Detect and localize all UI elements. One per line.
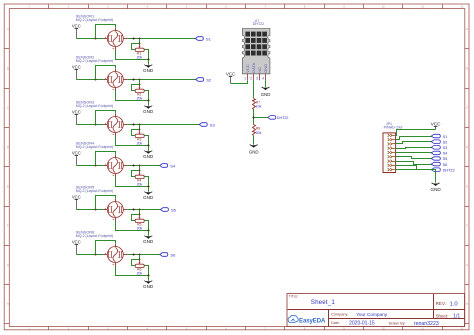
wire heater loop (sensor 1) xyxy=(96,25,116,39)
wire JP1 pin 4 to S3 flag xyxy=(396,148,432,149)
ground (sensor 4) xyxy=(143,187,154,201)
wire sensor 4 bottom pin to ground rail xyxy=(116,177,149,187)
wire heater loop (sensor 6) xyxy=(96,241,116,255)
svg-text:2: 2 xyxy=(250,76,252,80)
junction (sensor 3 divider tap) xyxy=(139,124,141,126)
wire sensor 1 bottom pin to ground rail xyxy=(116,50,149,60)
wire divider tap down (sensor 2) xyxy=(139,80,141,85)
wire divider tap down (sensor 6) xyxy=(139,255,141,260)
svg-text:R3: R3 xyxy=(137,138,142,142)
svg-text:R6: R6 xyxy=(137,268,142,272)
junction (wiper tie, sensor 2) xyxy=(139,84,141,86)
svg-text:Sheet:: Sheet: xyxy=(436,313,449,318)
svg-text:SENSOR5: SENSOR5 xyxy=(76,185,94,189)
wire JP1 pin 1 to VCC xyxy=(396,130,436,136)
wire R5 to ground rail xyxy=(145,221,149,231)
svg-text:MQ-2 (Layout-Footprint): MQ-2 (Layout-Footprint) xyxy=(76,234,114,238)
svg-text:SENSOR6: SENSOR6 xyxy=(76,230,94,234)
ground (sensor 3) xyxy=(143,146,154,160)
potentiometer R5 20k xyxy=(135,215,144,231)
svg-text:10k: 10k xyxy=(256,105,262,109)
ground (R8) xyxy=(249,145,259,155)
net flag S5 xyxy=(160,208,176,213)
svg-text:SENSOR1: SENSOR1 xyxy=(76,14,94,18)
junction (sensor 1 ground) xyxy=(147,58,149,60)
junction (sensor 6 ground) xyxy=(147,274,149,276)
svg-text:S2: S2 xyxy=(206,78,212,83)
resistor R8 20k xyxy=(253,125,262,136)
svg-text:S6: S6 xyxy=(443,163,448,167)
potentiometer R4 20k xyxy=(135,171,144,187)
svg-text:MQ-2 (Layout-Footprint): MQ-2 (Layout-Footprint) xyxy=(76,104,114,108)
svg-text:1.0: 1.0 xyxy=(450,301,458,307)
wire sensor 6 bottom pin to ground rail xyxy=(116,266,149,276)
wire DHT22 pin 4 to ground xyxy=(265,80,267,87)
svg-text:GND: GND xyxy=(263,64,268,73)
junction (sensor 3 ground) xyxy=(147,144,149,146)
svg-text:S5: S5 xyxy=(443,157,448,161)
svg-text:S6: S6 xyxy=(170,253,176,258)
junction (sensor 5 divider tap) xyxy=(139,209,141,211)
junction (sensor 6 output pin) xyxy=(133,254,135,256)
wire wiper loop (sensor 2) xyxy=(132,85,140,91)
junction (sensor 6 divider tap) xyxy=(139,254,141,256)
wire wiper loop (sensor 1) xyxy=(132,44,140,50)
svg-text:VCC: VCC xyxy=(72,24,81,29)
wire heater loop (sensor 4) xyxy=(96,152,116,166)
svg-text:S3: S3 xyxy=(210,123,216,128)
svg-text:S2: S2 xyxy=(443,140,448,144)
svg-text:S4: S4 xyxy=(443,152,448,156)
wire JP1 pin 5 to S4 flag xyxy=(396,152,432,154)
junction (sensor 5 heater tap) xyxy=(95,209,97,211)
net flag DHT22 (middle) xyxy=(268,116,289,120)
svg-text:VCC: VCC xyxy=(72,240,81,245)
junction (sensor 3 heater tap) xyxy=(95,124,97,126)
svg-text:H: H xyxy=(466,303,468,306)
junction (sensor 2 output pin) xyxy=(133,79,135,81)
svg-text:1/1: 1/1 xyxy=(453,314,460,320)
VCC power flag (sensor 6) xyxy=(72,240,81,255)
VCC power flag (sensor 1) xyxy=(72,24,81,39)
junction (sensor 4 divider tap) xyxy=(139,165,141,167)
svg-text:2020-01-15: 2020-01-15 xyxy=(349,320,375,326)
svg-text:Drawn By:: Drawn By: xyxy=(389,322,406,326)
wire sensor 2 output to S2 flag xyxy=(127,79,195,81)
VCC power flag (sensor 5) xyxy=(72,195,81,210)
wire sensor 4 output to S4 flag xyxy=(127,165,160,167)
ground (DHT22 pin 4) xyxy=(261,87,271,97)
junction (sensor 2 divider tap) xyxy=(139,79,141,81)
wire JP1 pin 7 to S6 flag xyxy=(396,162,432,165)
svg-text:R1: R1 xyxy=(137,52,142,56)
potentiometer R3 20k xyxy=(135,130,144,146)
wire R6 to ground rail xyxy=(145,266,149,276)
IC U? DHT22 xyxy=(242,19,270,80)
svg-text:S1: S1 xyxy=(206,37,212,42)
wire VCC to sensor 5 left pin xyxy=(76,209,103,211)
svg-text:G: G xyxy=(7,264,9,267)
svg-text:SENSOR2: SENSOR2 xyxy=(76,55,94,59)
junction (sensor 5 ground) xyxy=(147,229,149,231)
wire divider tap down (sensor 5) xyxy=(139,210,141,215)
junction (sensor 2 heater tap) xyxy=(95,79,97,81)
svg-text:GND: GND xyxy=(261,92,271,97)
svg-text:VCC: VCC xyxy=(72,65,81,70)
wire wiper loop (sensor 5) xyxy=(132,215,140,221)
junction (wiper tie, sensor 1) xyxy=(139,43,141,45)
wire heater loop (sensor 3) xyxy=(96,111,116,125)
VCC power flag (JP1) xyxy=(431,122,441,130)
wire JP1 pin 3 to S2 flag xyxy=(396,142,432,144)
junction (sensor 1 output pin) xyxy=(133,38,135,40)
wire DHT22 data to R7 xyxy=(253,80,255,98)
svg-text:DATA: DATA xyxy=(251,62,256,72)
wire JP1 pin 9 to ground xyxy=(396,170,436,183)
net flag S4 xyxy=(160,164,176,169)
junction (wiper tie, sensor 4) xyxy=(139,170,141,172)
net flag S3 xyxy=(199,123,215,128)
wire wiper loop (sensor 4) xyxy=(132,171,140,177)
junction (sensor 1 heater tap) xyxy=(95,38,97,40)
net flag S1 (right) xyxy=(431,134,447,139)
sensor SENSOR6 (MQ-2) xyxy=(76,230,127,265)
svg-text:NC: NC xyxy=(257,67,262,73)
junction (sensor 2 ground) xyxy=(147,99,149,101)
VCC power flag (sensor 3) xyxy=(72,110,81,125)
svg-text:R4: R4 xyxy=(137,179,142,183)
potentiometer R6 20k xyxy=(135,260,144,276)
svg-text:S1: S1 xyxy=(443,135,448,139)
wire R1 to ground rail xyxy=(145,50,149,60)
svg-text:DHT22: DHT22 xyxy=(443,168,455,172)
wire sensor 5 bottom pin to ground rail xyxy=(116,221,149,231)
svg-text:SENSOR3: SENSOR3 xyxy=(76,100,94,104)
sensor SENSOR4 (MQ-2) xyxy=(76,141,127,177)
EasyEDA logo xyxy=(288,315,326,324)
svg-text:MQ-2 (Layout-Footprint): MQ-2 (Layout-Footprint) xyxy=(76,59,114,63)
svg-text:R5: R5 xyxy=(137,223,142,227)
ground (sensor 2) xyxy=(143,101,154,115)
svg-text:R8: R8 xyxy=(256,127,260,131)
svg-text:20k: 20k xyxy=(256,131,262,135)
wire VCC to sensor 1 left pin xyxy=(76,38,103,40)
net flag S3 (right) xyxy=(431,146,447,150)
svg-text:S5: S5 xyxy=(171,208,177,213)
svg-text:VCC: VCC xyxy=(72,151,81,156)
ground (sensor 5) xyxy=(143,231,154,245)
wire sensor 2 bottom pin to ground rail xyxy=(116,91,149,101)
net flag S6 (right) xyxy=(431,162,447,167)
wire R8 to ground xyxy=(253,136,255,145)
svg-text:GND: GND xyxy=(143,154,154,159)
svg-text:Company:: Company: xyxy=(331,312,348,316)
wire VCC to sensor 3 left pin xyxy=(76,124,103,126)
wire R7 to R8 xyxy=(253,109,255,124)
VCC power flag (sensor 4) xyxy=(72,151,81,166)
sensor SENSOR3 (MQ-2) xyxy=(76,100,127,136)
ground (sensor 6) xyxy=(143,276,154,290)
VCC power flag (sensor 2) xyxy=(72,65,81,80)
junction (sensor 6 heater tap) xyxy=(95,254,97,256)
junction (DHT22 data node) xyxy=(252,116,254,118)
svg-text:MQ-2 (Layout-Footprint): MQ-2 (Layout-Footprint) xyxy=(76,18,114,22)
wire heater loop (sensor 5) xyxy=(96,196,116,210)
junction (sensor 4 heater tap) xyxy=(95,165,97,167)
svg-text:VCC: VCC xyxy=(431,122,441,127)
wire R3 to ground rail xyxy=(145,136,149,146)
wire R2 to ground rail xyxy=(145,91,149,101)
ground (sensor 1) xyxy=(143,60,154,74)
wire VCC to sensor 2 left pin xyxy=(76,79,103,81)
svg-text:Date:: Date: xyxy=(331,321,340,325)
potentiometer R2 20k xyxy=(135,85,144,101)
net flag S5 (right) xyxy=(431,157,447,161)
sensor SENSOR2 (MQ-2) xyxy=(76,55,127,91)
svg-text:DHT22: DHT22 xyxy=(277,116,289,120)
svg-text:VCC: VCC xyxy=(72,195,81,200)
svg-text:S4: S4 xyxy=(170,164,176,169)
svg-text:GND: GND xyxy=(143,284,154,289)
title block xyxy=(287,294,465,328)
junction (sensor 4 ground) xyxy=(147,185,149,187)
svg-text:PINHD-1X9: PINHD-1X9 xyxy=(384,125,403,129)
junction (wiper tie, sensor 5) xyxy=(139,214,141,216)
svg-text:3: 3 xyxy=(256,76,258,80)
net flag S2 xyxy=(196,78,212,83)
svg-text:REV:: REV: xyxy=(436,301,447,306)
svg-text:4: 4 xyxy=(262,76,264,80)
svg-text:H: H xyxy=(7,303,9,306)
potentiometer R1 20k xyxy=(135,44,144,60)
svg-text:1: 1 xyxy=(244,76,246,80)
junction (sensor 4 output pin) xyxy=(133,165,135,167)
svg-text:renan3223: renan3223 xyxy=(414,321,439,327)
wire VCC to sensor 6 left pin xyxy=(76,254,103,256)
wire sensor 3 output to S3 flag xyxy=(127,124,199,126)
svg-text:GND: GND xyxy=(143,68,154,73)
net flag DHT22 (right) xyxy=(431,168,454,173)
net flag S6 xyxy=(160,253,176,258)
net flag S4 (right) xyxy=(431,151,447,155)
wire sensor 1 output to S1 flag xyxy=(127,38,195,40)
svg-text:S3: S3 xyxy=(443,146,448,150)
resistor R7 10k xyxy=(253,99,262,110)
wire JP1 pin 8 to DHT22 flag xyxy=(396,166,432,170)
sensor SENSOR5 (MQ-2) xyxy=(76,185,127,221)
svg-text:C: C xyxy=(7,107,9,110)
wire heater loop (sensor 2) xyxy=(96,66,116,80)
wire JP1 pin 6 to S5 flag xyxy=(396,157,432,159)
svg-text:GND: GND xyxy=(430,187,441,192)
svg-text:GND: GND xyxy=(143,195,154,200)
VCC power flag (DHT22) xyxy=(226,71,235,83)
svg-text:D: D xyxy=(7,146,9,149)
wire sensor 6 output to S6 flag xyxy=(127,254,160,256)
wire VCC to DHT22 pin 1 xyxy=(231,81,248,84)
svg-text:R2: R2 xyxy=(137,93,142,97)
junction (sensor 5 output pin) xyxy=(133,209,135,211)
svg-text:SENSOR4: SENSOR4 xyxy=(76,141,94,145)
junction (sensor 1 divider tap) xyxy=(139,38,141,40)
wire wiper loop (sensor 3) xyxy=(132,130,140,136)
svg-text:GND: GND xyxy=(143,239,154,244)
wire divider tap down (sensor 1) xyxy=(139,39,141,44)
wire data node to DHT22 flag xyxy=(254,117,268,119)
svg-text:D: D xyxy=(466,146,468,149)
svg-text:C: C xyxy=(466,107,468,110)
svg-text:G: G xyxy=(466,264,468,267)
wire R4 to ground rail xyxy=(145,177,149,187)
wire VCC to sensor 4 left pin xyxy=(76,165,103,167)
junction (wiper tie, sensor 6) xyxy=(139,259,141,261)
ground (JP1 pin 9) xyxy=(430,183,441,192)
connector JP1 PINHD-1X9 xyxy=(383,122,402,172)
svg-text:GND: GND xyxy=(143,109,154,114)
svg-text:TITLE:: TITLE: xyxy=(289,294,299,298)
svg-text:VCC: VCC xyxy=(245,64,250,73)
net flag S1 xyxy=(195,37,211,42)
svg-text:VCC: VCC xyxy=(72,110,81,115)
wire wiper loop (sensor 6) xyxy=(132,260,140,266)
svg-text:DHT22: DHT22 xyxy=(253,22,264,26)
wire sensor 5 output to S5 flag xyxy=(127,209,160,211)
svg-text:MQ-2 (Layout-Footprint): MQ-2 (Layout-Footprint) xyxy=(76,189,114,193)
wire divider tap down (sensor 3) xyxy=(139,125,141,130)
svg-text:R7: R7 xyxy=(256,100,260,104)
wire JP1 pin 2 to S1 flag xyxy=(396,137,432,140)
svg-text:MQ-2 (Layout-Footprint): MQ-2 (Layout-Footprint) xyxy=(76,145,114,149)
svg-text:VCC: VCC xyxy=(226,71,235,76)
wire divider tap down (sensor 4) xyxy=(139,166,141,171)
svg-text:Your Company: Your Company xyxy=(356,312,387,317)
sensor SENSOR1 (MQ-2) xyxy=(76,14,127,50)
svg-text:GND: GND xyxy=(249,149,259,154)
svg-text:EasyEDA: EasyEDA xyxy=(299,319,326,325)
net flag S2 (right) xyxy=(431,140,447,145)
junction (sensor 3 output pin) xyxy=(133,124,135,126)
wire sensor 3 bottom pin to ground rail xyxy=(116,136,149,146)
svg-text:Sheet_1: Sheet_1 xyxy=(311,299,336,306)
junction (wiper tie, sensor 3) xyxy=(139,129,141,131)
